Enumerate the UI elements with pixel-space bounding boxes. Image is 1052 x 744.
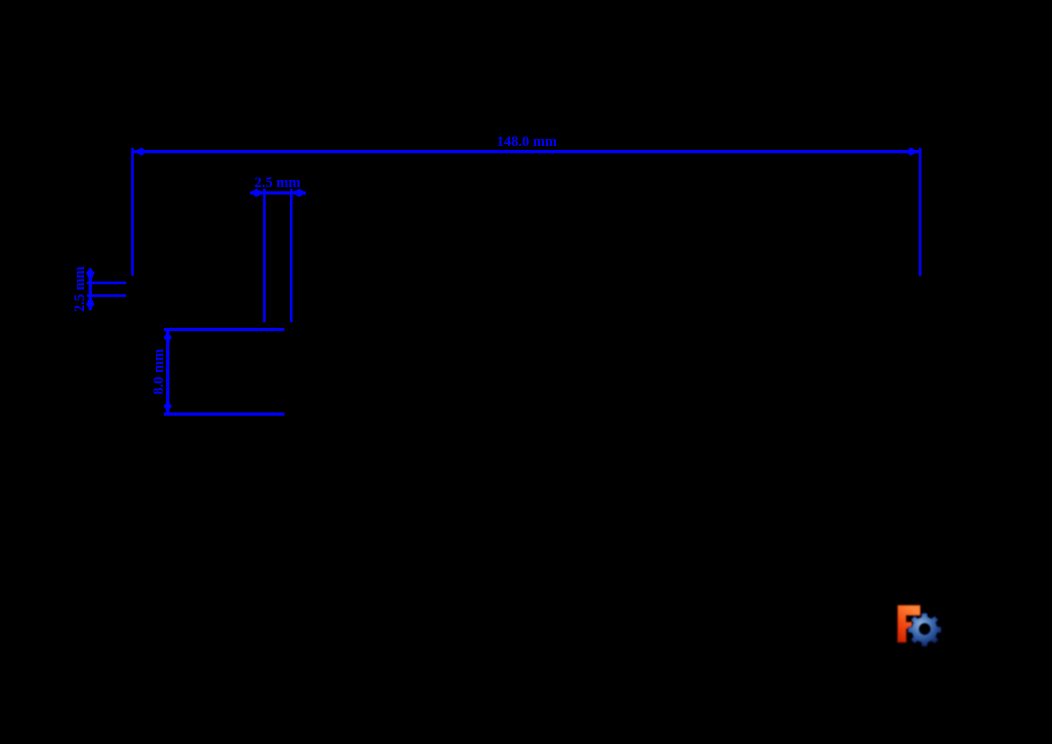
wire top extension line <box>164 328 285 331</box>
wire dimension line <box>133 150 919 153</box>
wire right extension line <box>919 148 922 276</box>
wire left extension line <box>263 189 266 322</box>
wire dimension line vertical <box>89 268 92 310</box>
letter F <box>898 605 921 642</box>
node left arrow <box>250 189 264 197</box>
node bottom arrow <box>86 296 94 310</box>
svg-text:2.5 mm: 2.5 mm <box>72 266 88 312</box>
wire bottom extension line <box>87 294 126 297</box>
node right arrow <box>291 189 305 197</box>
node left arrow <box>134 148 146 156</box>
dimension 2.5 mm left <box>72 266 126 312</box>
svg-text:148.0 mm: 148.0 mm <box>497 134 557 150</box>
wire right extension line <box>290 189 293 322</box>
svg-text:2.5 mm: 2.5 mm <box>255 175 301 191</box>
node top arrow <box>164 331 172 343</box>
node bottom arrow <box>164 401 172 413</box>
wire bottom extension line <box>164 413 285 416</box>
svg-text:8.0 mm: 8.0 mm <box>151 349 167 395</box>
wire top extension line <box>87 282 126 285</box>
node right arrow <box>906 148 918 156</box>
dimension 2.5 mm top <box>250 175 306 322</box>
gear <box>908 613 941 646</box>
wire dimension line <box>250 191 306 194</box>
node top arrow <box>86 268 94 283</box>
wire dimension line vertical <box>166 330 169 415</box>
FreeCAD logo <box>898 605 941 646</box>
wire left extension line <box>131 148 134 276</box>
dimension 148.0 mm <box>131 134 921 276</box>
dimension 8.0 mm <box>151 328 284 416</box>
